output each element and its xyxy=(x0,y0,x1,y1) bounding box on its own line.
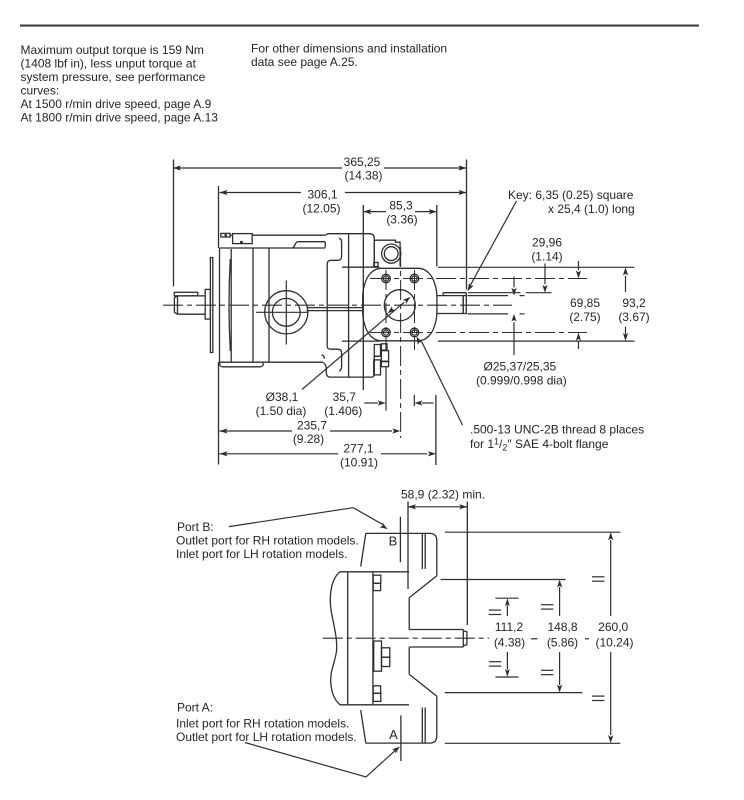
ext 58,9 left xyxy=(407,502,409,590)
svg-text:A: A xyxy=(389,727,398,742)
left extension for 235,7 / 277,1 xyxy=(218,362,220,465)
adapter top block xyxy=(323,234,375,263)
rear block bottom edge xyxy=(340,704,409,706)
bolt hole top-right xyxy=(410,274,419,283)
key top extension xyxy=(468,292,521,294)
adapter face line xyxy=(348,234,350,377)
svg-text:260,0: 260,0 xyxy=(598,620,628,634)
svg-text:58,9 (2.32) min.: 58,9 (2.32) min. xyxy=(401,487,485,501)
svg-text:306,1: 306,1 xyxy=(307,188,337,202)
svg-text:Port B:: Port B: xyxy=(177,520,214,534)
dim 365,25 xyxy=(173,167,342,169)
main centerline xyxy=(163,304,512,306)
body bottom steps xyxy=(322,355,325,359)
svg-text:At 1500 r/min drive speed, pag: At 1500 r/min drive speed, page A.9 xyxy=(21,97,212,111)
leader UNC thread xyxy=(422,342,463,425)
flange plate octagon xyxy=(363,268,437,341)
top rule xyxy=(20,25,699,27)
bolt hole top-left xyxy=(382,274,391,283)
svg-text:Outlet port for RH rotation mo: Outlet port for RH rotation models. xyxy=(176,533,359,547)
adapter neck bottom diagonal xyxy=(409,674,437,696)
svg-text:Key: 6,35 (0.25) square: Key: 6,35 (0.25) square xyxy=(508,188,634,202)
side port centerline xyxy=(256,311,308,313)
svg-text:277,1: 277,1 xyxy=(343,441,373,455)
pump shaft left xyxy=(174,296,205,314)
small tab below boss xyxy=(374,263,378,267)
leader key xyxy=(469,201,516,287)
flange top line xyxy=(342,266,380,268)
dim 365,25 extension line right xyxy=(466,160,468,290)
eq mark 2 xyxy=(489,661,501,663)
svg-text:(1.50 dia): (1.50 dia) xyxy=(256,404,307,418)
svg-text:85,3: 85,3 xyxy=(389,199,413,213)
rear block right edge xyxy=(372,572,374,705)
right extension 277,1 xyxy=(435,395,437,465)
dim 93,2 xyxy=(625,276,627,292)
dim 306,1 extension line xyxy=(218,186,220,248)
flange bottom line xyxy=(342,340,380,342)
front port boss square xyxy=(374,240,400,266)
svg-text:curves:: curves: xyxy=(21,84,60,98)
dim 365,25 extension line left xyxy=(173,160,175,287)
shaft top extension xyxy=(468,295,509,297)
svg-text:Ø38,1: Ø38,1 xyxy=(266,390,299,404)
dim shaft dia arrows xyxy=(513,277,515,288)
eq mark 4 xyxy=(541,669,553,671)
mounting tab large xyxy=(233,234,253,244)
dim 277,1 xyxy=(220,453,339,455)
svg-text:(10.91): (10.91) xyxy=(340,455,378,469)
svg-text:(4.38): (4.38) xyxy=(494,635,525,649)
shaft right xyxy=(437,295,463,297)
svg-text:B: B xyxy=(389,534,398,549)
bolt hole bottom-left xyxy=(382,328,391,337)
adapter bottom edge xyxy=(323,355,375,377)
svg-text:x 25,4 (1.0) long: x 25,4 (1.0) long xyxy=(548,202,635,216)
flange bottom extension xyxy=(438,340,635,342)
rear cover cap xyxy=(219,248,221,362)
adapter inner contour top xyxy=(327,238,341,371)
rear rim plate xyxy=(210,258,212,353)
svg-text:(1.14): (1.14) xyxy=(531,250,562,264)
shaft collar xyxy=(205,289,210,319)
svg-text:(2.75): (2.75) xyxy=(569,310,600,324)
port B face mark xyxy=(399,517,401,562)
bolt top centerline xyxy=(370,278,587,280)
svg-text:(9.28): (9.28) xyxy=(293,432,324,446)
svg-text:(1.406): (1.406) xyxy=(324,404,362,418)
ext line 148,8 bottom xyxy=(445,692,583,694)
svg-text:93,2: 93,2 xyxy=(622,296,646,310)
svg-text:(3.36): (3.36) xyxy=(386,213,417,227)
bolt column ext stubs xyxy=(385,367,387,411)
svg-text:(14.38): (14.38) xyxy=(344,169,382,183)
svg-text:(0.999/0.998 dia): (0.999/0.998 dia) xyxy=(476,374,567,388)
svg-text:system pressure, see performan: system pressure, see performance xyxy=(21,70,206,84)
eq mark 1 xyxy=(489,609,501,611)
ext line 148,8 top xyxy=(441,579,566,581)
dim 148,8 xyxy=(559,587,561,616)
svg-text:111,2: 111,2 xyxy=(495,620,524,634)
pilot bore circle xyxy=(384,290,415,321)
ext line A bottom xyxy=(445,742,621,744)
front port boss circles xyxy=(382,244,401,263)
block boss bottom xyxy=(373,686,380,694)
adapter neck xyxy=(408,598,410,630)
ext 58,9 right xyxy=(466,502,468,626)
svg-text:(12.05): (12.05) xyxy=(302,202,340,216)
bolt column centerline right xyxy=(414,270,416,350)
svg-text:Ø25,37/25,35: Ø25,37/25,35 xyxy=(484,360,557,374)
block boss top xyxy=(373,575,381,583)
svg-text:Maximum output torque is 159 N: Maximum output torque is 159 Nm xyxy=(21,43,204,57)
dim 306,1 xyxy=(220,192,302,194)
eq mark 6 xyxy=(592,695,604,697)
ext line B top xyxy=(445,531,621,533)
svg-text:(5.86): (5.86) xyxy=(547,635,578,649)
port A face mark xyxy=(400,715,402,761)
svg-text:(3.67): (3.67) xyxy=(618,310,649,324)
svg-text:(1408 lbf in), less unput torq: (1408 lbf in), less unput torque at xyxy=(21,57,197,71)
port B boss xyxy=(366,533,437,575)
dim 260,0 xyxy=(610,540,612,616)
svg-text:For other dimensions and insta: For other dimensions and installation xyxy=(251,42,447,56)
foot xyxy=(220,362,264,367)
block boss middle xyxy=(374,641,382,671)
svg-text:148,8: 148,8 xyxy=(547,620,577,634)
flange vertical centerline xyxy=(400,247,402,438)
svg-text:Outlet port for LH rotation mo: Outlet port for LH rotation models. xyxy=(176,730,357,744)
svg-text:35,7: 35,7 xyxy=(333,390,357,404)
side port circle xyxy=(265,291,308,334)
body section lines xyxy=(252,248,254,362)
body top steps xyxy=(292,242,298,248)
shaft bottom extension xyxy=(468,313,509,315)
rear block inner line xyxy=(347,572,349,705)
svg-text:data see page A.25.: data see page A.25. xyxy=(251,55,358,69)
svg-text:29,96: 29,96 xyxy=(532,236,562,250)
lower shaft xyxy=(409,629,463,631)
svg-text:365,25: 365,25 xyxy=(344,155,381,169)
leader Port B xyxy=(229,508,384,527)
dim 85,3 xyxy=(363,211,386,213)
svg-text:69,85: 69,85 xyxy=(570,296,600,310)
dim 85,3 extension lines xyxy=(362,205,364,390)
svg-text:for 11/2″ SAE 4-bolt flange: for 11/2″ SAE 4-bolt flange xyxy=(470,436,609,452)
window lines to flange xyxy=(307,307,364,309)
rear block wavy left edge xyxy=(330,572,340,705)
svg-text:At 1800 r/min drive speed, pag: At 1800 r/min drive speed, page A.13 xyxy=(21,111,219,125)
flange top extension xyxy=(438,266,635,268)
lower centerline xyxy=(323,637,489,639)
shaft key left xyxy=(174,292,198,296)
port A boss xyxy=(366,696,437,743)
rear block top edge xyxy=(340,571,409,573)
dim 69,85 arrows xyxy=(578,261,580,270)
svg-text:.500-13 UNC-2B thread 8 places: .500-13 UNC-2B thread 8 places xyxy=(470,422,644,436)
svg-text:Inlet port for LH rotation mod: Inlet port for LH rotation models. xyxy=(176,547,347,561)
mounting tab small xyxy=(221,233,230,237)
eq mark 5 xyxy=(592,576,604,578)
svg-text:(10.24): (10.24) xyxy=(595,635,633,649)
bolt hole bottom-right xyxy=(410,328,419,337)
svg-text:235,7: 235,7 xyxy=(297,419,327,433)
leader pilot dia xyxy=(388,306,396,313)
bolt bottom centerline xyxy=(370,332,587,334)
adapter neck top diagonal xyxy=(409,576,437,598)
leader Port A xyxy=(245,743,397,778)
eq mark 3 xyxy=(541,604,553,606)
svg-text:Port A:: Port A: xyxy=(177,700,213,714)
dim 111,2 xyxy=(506,606,508,617)
ext line 111,2 top xyxy=(495,597,518,599)
svg-text:Inlet port for RH rotation mod: Inlet port for RH rotation models. xyxy=(176,716,349,730)
ext line 111,2 bottom xyxy=(495,676,518,678)
plug stack below flange xyxy=(374,345,380,357)
bolt column centerline left xyxy=(385,270,387,350)
key xyxy=(443,293,466,296)
dim 235,7 xyxy=(220,430,293,432)
